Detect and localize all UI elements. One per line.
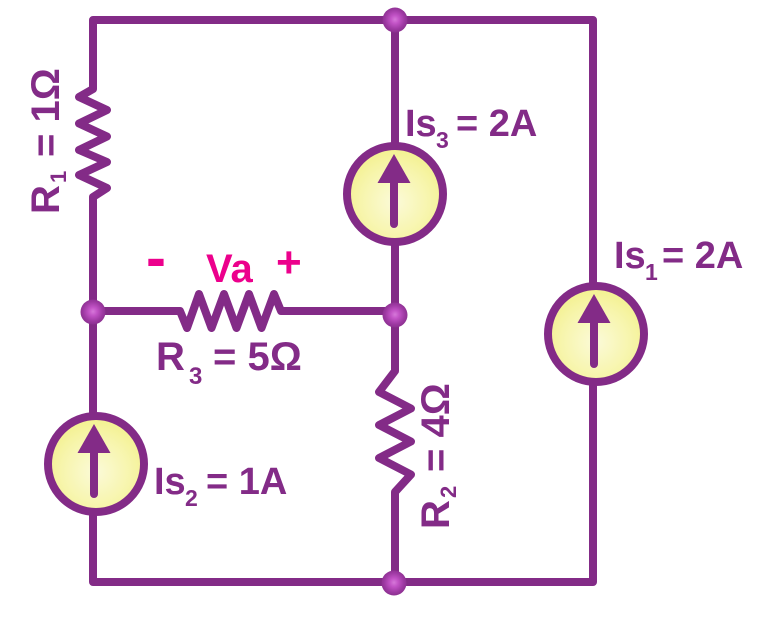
- svg-text:2: 2: [185, 485, 198, 511]
- svg-text:= 4Ω: = 4Ω: [414, 383, 458, 472]
- svg-text:R: R: [24, 185, 68, 214]
- svg-text:2: 2: [436, 486, 461, 498]
- svg-text:R: R: [156, 335, 185, 379]
- svg-text:1: 1: [46, 171, 71, 183]
- svg-text:= 2A: = 2A: [456, 103, 537, 145]
- svg-text:= 2A: = 2A: [662, 235, 743, 277]
- svg-text:Is: Is: [154, 461, 186, 503]
- svg-text:1: 1: [645, 259, 658, 285]
- svg-text:Va: Va: [206, 247, 253, 291]
- svg-text:= 5Ω: = 5Ω: [213, 335, 302, 379]
- svg-text:-: -: [146, 224, 166, 291]
- svg-text:= 1Ω: = 1Ω: [24, 68, 68, 157]
- svg-text:R: R: [414, 500, 458, 529]
- svg-text:Is: Is: [614, 235, 646, 277]
- svg-text:3: 3: [189, 363, 202, 390]
- svg-text:Is: Is: [405, 103, 437, 145]
- svg-text:= 1A: = 1A: [206, 461, 287, 503]
- svg-text:+: +: [276, 238, 302, 287]
- svg-text:3: 3: [436, 127, 449, 153]
